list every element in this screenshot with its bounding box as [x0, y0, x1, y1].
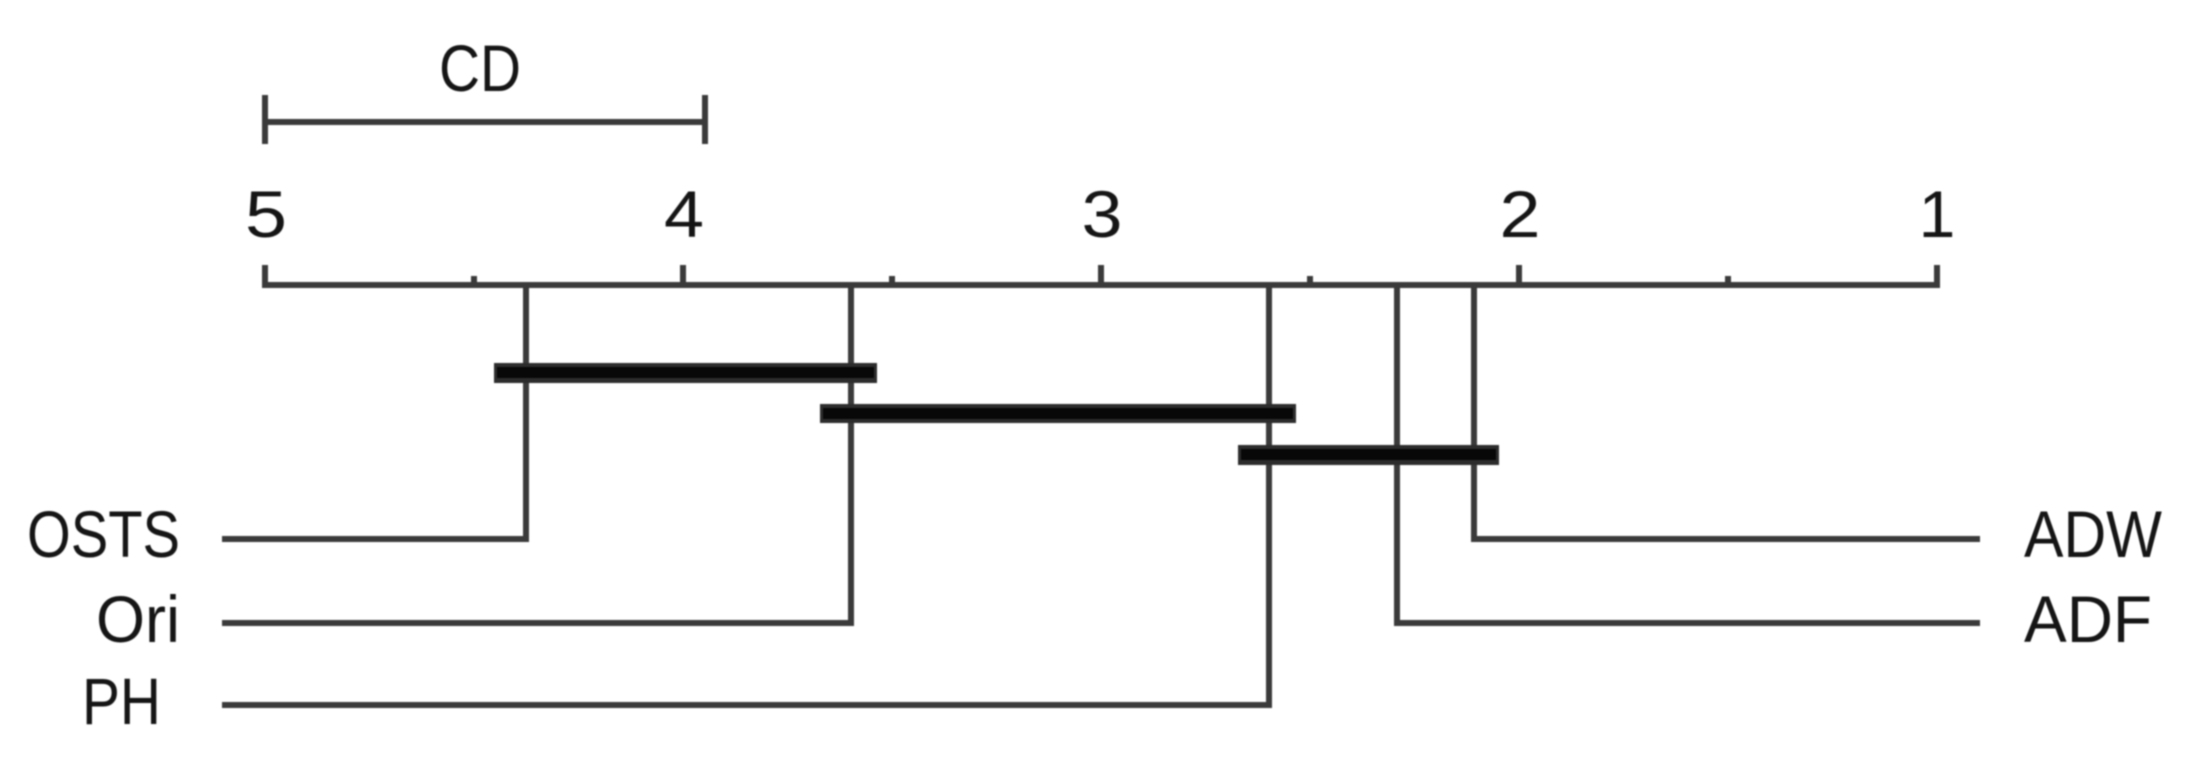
svg-text:1: 1 — [1919, 177, 1956, 251]
OSTS vertical line — [523, 282, 529, 542]
svg-text:4: 4 — [664, 177, 704, 251]
svg-text:5: 5 — [245, 177, 287, 251]
svg-text:Ori: Ori — [96, 582, 180, 656]
svg-text:2: 2 — [1500, 177, 1541, 251]
svg-text:CD: CD — [439, 31, 521, 105]
group bar Ori-PH — [820, 404, 1296, 423]
OSTS connector line — [222, 536, 529, 542]
CD bracket right end tick — [702, 95, 708, 144]
ADW vertical line — [1471, 282, 1477, 542]
CD bracket left end tick — [262, 95, 268, 144]
svg-text:ADW: ADW — [2024, 497, 2163, 571]
major tick 5 — [262, 265, 268, 288]
PH connector line — [222, 702, 1272, 708]
svg-text:3: 3 — [1082, 177, 1123, 251]
major tick 1 — [1934, 265, 1940, 288]
svg-text:OSTS: OSTS — [27, 497, 180, 571]
minor tick 2.5 — [1307, 276, 1313, 288]
major tick 3 — [1098, 265, 1104, 288]
ADW connector line — [1471, 536, 1980, 542]
CD bracket line — [262, 119, 708, 125]
Ori vertical line — [848, 282, 854, 626]
group bar OSTS-Ori — [494, 363, 877, 383]
minor tick 3.5 — [889, 276, 895, 288]
minor tick 4.5 — [471, 276, 477, 288]
group bar PH-ADF-ADW — [1238, 445, 1499, 465]
svg-text:PH: PH — [82, 664, 161, 738]
svg-text:ADF: ADF — [2024, 582, 2152, 656]
PH vertical line — [1266, 282, 1272, 708]
ADF connector line — [1394, 620, 1980, 626]
minor tick 1.5 — [1725, 276, 1731, 288]
Ori connector line — [222, 620, 854, 626]
major tick 2 — [1516, 265, 1522, 288]
major tick 4 — [680, 265, 686, 288]
ADF vertical line — [1394, 282, 1400, 626]
axis line — [262, 282, 1940, 288]
